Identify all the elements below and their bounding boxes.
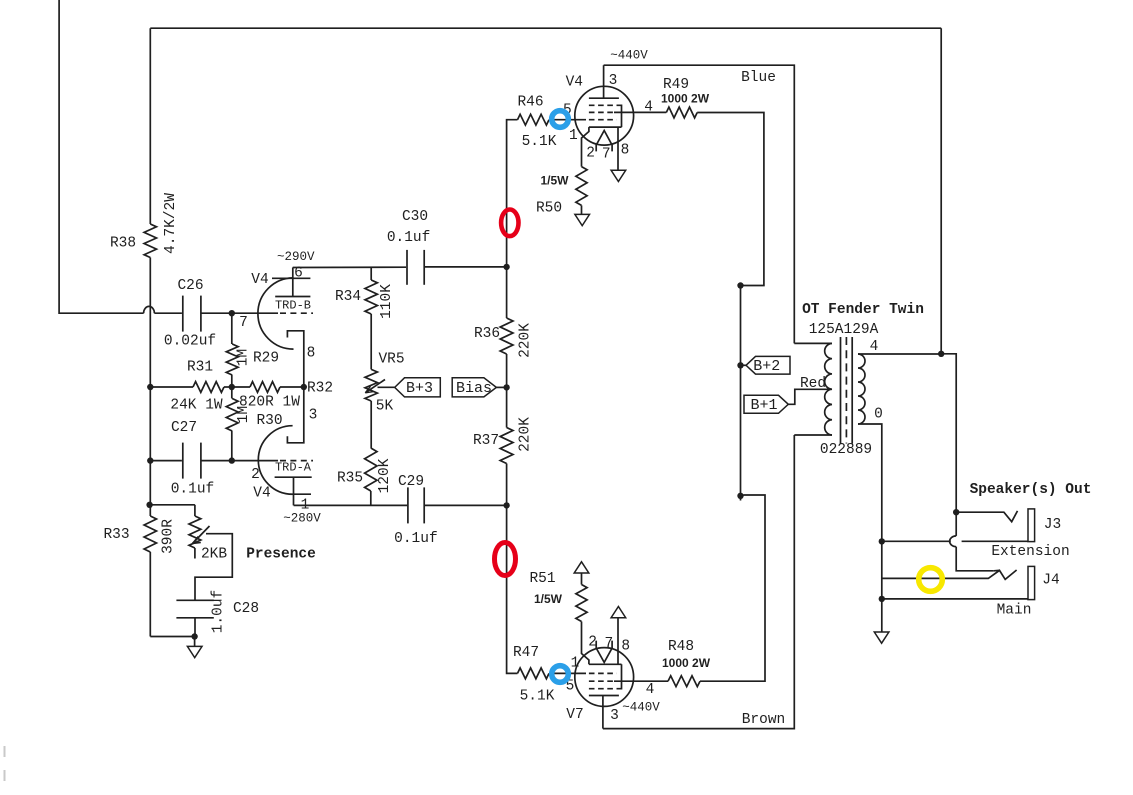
resistor R36 xyxy=(506,267,508,318)
svg-text:820R 1W: 820R 1W xyxy=(239,394,300,410)
resistor R47 xyxy=(518,668,550,679)
resistor R29 xyxy=(226,344,238,375)
net tag B+2 xyxy=(746,356,790,374)
svg-text:Presence: Presence xyxy=(246,546,316,562)
node C29 junction xyxy=(503,502,509,508)
node J3 tip junction xyxy=(953,509,959,515)
resistor R34 xyxy=(370,267,372,280)
svg-text:R36: R36 xyxy=(474,326,500,342)
svg-text:C27: C27 xyxy=(171,420,197,436)
jack J3 body xyxy=(1028,509,1035,542)
wire R48 to B+2 rail xyxy=(700,495,765,681)
wire R29-R30 ladder vertical xyxy=(231,313,233,344)
jack J4 tip contact with switch xyxy=(882,570,1017,579)
svg-text:8: 8 xyxy=(307,345,316,361)
svg-text:4: 4 xyxy=(646,682,655,698)
svg-text:8: 8 xyxy=(621,639,630,655)
capacitor C28 xyxy=(176,599,213,601)
wire C27 row xyxy=(150,460,182,462)
svg-text:R31: R31 xyxy=(187,359,213,375)
svg-text:R32: R32 xyxy=(307,380,333,396)
plate of TRD-A (double bar) xyxy=(275,476,312,478)
heater of V4 (pins 2,7) xyxy=(596,131,612,152)
pin 8 lead of V7 to ground xyxy=(617,618,619,665)
annotation yellow ring xyxy=(919,568,943,592)
svg-text:1000 2W: 1000 2W xyxy=(662,656,711,670)
svg-text:2KB: 2KB xyxy=(201,546,227,562)
svg-text:0.1uf: 0.1uf xyxy=(171,481,215,497)
node J3 sleeve junction xyxy=(879,538,885,544)
transformer OT primary winding xyxy=(794,342,832,344)
node C28/ground junction xyxy=(191,633,197,639)
scan artifact dashed edge xyxy=(4,746,6,792)
svg-text:110K: 110K xyxy=(379,284,395,319)
svg-text:4.7K/2W: 4.7K/2W xyxy=(163,193,179,254)
svg-text:125A129A: 125A129A xyxy=(809,322,879,338)
wire to presence pot top xyxy=(150,504,195,506)
resistor R51 (cathode sense) xyxy=(576,585,587,622)
svg-text:Extension: Extension xyxy=(991,544,1069,560)
svg-text:Brown: Brown xyxy=(742,712,786,728)
svg-text:4: 4 xyxy=(644,99,653,115)
svg-text:R51: R51 xyxy=(529,571,555,587)
svg-text:390R: 390R xyxy=(161,519,177,554)
svg-text:R37: R37 xyxy=(473,433,499,449)
annotation red ellipse lower xyxy=(495,543,516,576)
node R31/R29 junction xyxy=(229,384,235,390)
resistor R49 xyxy=(666,107,697,118)
wire J4 sleeve xyxy=(882,598,1028,600)
ground symbol pin8 V4 xyxy=(611,170,626,181)
svg-text:R50: R50 xyxy=(536,200,562,216)
heater of V7 (pins 2,7) xyxy=(596,641,612,663)
grid of TRD-B (dashed) xyxy=(280,312,313,314)
wire C29 to lower grid node xyxy=(424,504,506,506)
tube V4 power tube envelope xyxy=(575,86,634,145)
wire R38 branch upper (top rail down to R38) xyxy=(149,28,151,224)
svg-text:OT Fender Twin: OT Fender Twin xyxy=(802,302,924,318)
wire ~290V plate rail xyxy=(293,266,406,268)
svg-text:~290V: ~290V xyxy=(277,250,315,264)
svg-text:8: 8 xyxy=(621,142,630,158)
svg-text:R46: R46 xyxy=(517,94,543,110)
cathode of V4 xyxy=(589,126,622,128)
wire top NFB rail xyxy=(150,27,941,29)
svg-text:1000 2W: 1000 2W xyxy=(661,92,710,106)
svg-text:V4: V4 xyxy=(253,485,270,501)
capacitor C26 xyxy=(182,296,184,332)
plate of V7 (pin 3) xyxy=(589,695,619,697)
wire B+2 tag stub xyxy=(741,364,747,366)
svg-text:C28: C28 xyxy=(233,601,259,617)
cathode of V7 xyxy=(589,663,622,665)
transformer OT secondary winding xyxy=(858,354,865,424)
control grid of V4 (dashed, pin 5) xyxy=(589,119,617,121)
screen grid of V4 (dashed, pin 4) xyxy=(589,111,614,113)
svg-text:~440V: ~440V xyxy=(622,700,660,714)
svg-text:120K: 120K xyxy=(377,458,393,493)
node R31 left xyxy=(147,384,153,390)
wire secondary to J3 tip xyxy=(941,354,956,512)
annotation blue ring upper xyxy=(552,111,569,128)
svg-text:J4: J4 xyxy=(1042,572,1059,588)
resistor R38 xyxy=(144,224,156,258)
svg-text:VR5: VR5 xyxy=(378,351,404,367)
node R32 right (tail junction) xyxy=(301,384,307,390)
svg-text:C30: C30 xyxy=(402,209,428,225)
svg-text:24K 1W: 24K 1W xyxy=(170,397,223,413)
wire speaker ground drop xyxy=(881,541,883,632)
node J4 sleeve junction xyxy=(879,596,885,602)
svg-text:022889: 022889 xyxy=(820,442,872,458)
wire C26 to grid node pin7 xyxy=(201,312,232,314)
wire presence wiper loop xyxy=(195,534,232,601)
svg-text:3: 3 xyxy=(309,407,318,423)
svg-text:C26: C26 xyxy=(177,278,203,294)
svg-text:7: 7 xyxy=(239,315,248,331)
wire R38 lower to presence network (vertical through hop, down to R33 node) xyxy=(149,258,151,505)
annotation red ellipse upper xyxy=(501,210,518,237)
resistor R46 xyxy=(518,114,550,125)
svg-text:0.1uf: 0.1uf xyxy=(387,230,431,246)
svg-text:0: 0 xyxy=(874,406,883,422)
node B+2/R48 junction xyxy=(737,493,743,499)
svg-text:5.1K: 5.1K xyxy=(520,688,555,704)
svg-text:R38: R38 xyxy=(110,235,136,251)
ground symbol presence xyxy=(187,646,202,657)
ground symbol R50 xyxy=(575,214,590,225)
pin 8 lead of V4 to ground xyxy=(617,127,619,170)
node NFB takeoff junction xyxy=(938,351,944,357)
svg-text:B+3: B+3 xyxy=(406,380,433,397)
svg-text:Main: Main xyxy=(997,602,1032,618)
net tag B+3 xyxy=(395,378,441,397)
svg-text:B+1: B+1 xyxy=(750,397,777,414)
svg-text:R35: R35 xyxy=(337,470,363,486)
control grid of V7 (dashed, pin 5) xyxy=(589,672,617,674)
capacitor C27 xyxy=(182,443,184,479)
tube V4 TRD-A envelope (lower PI triode) xyxy=(258,426,292,495)
svg-text:1: 1 xyxy=(571,655,580,671)
svg-text:1: 1 xyxy=(569,128,578,144)
node B+ corner xyxy=(737,282,743,288)
svg-text:B+2: B+2 xyxy=(753,358,780,375)
transformer OT primary center tap Red xyxy=(788,389,832,404)
grid of TRD-A (dashed) xyxy=(280,460,313,462)
wire PI lower output vertical to R47 xyxy=(507,505,518,673)
node C30 junction xyxy=(503,264,509,270)
svg-text:1/5W: 1/5W xyxy=(540,174,569,188)
svg-text:V4: V4 xyxy=(566,75,583,91)
wire C30 to grid node xyxy=(424,266,506,268)
svg-text:7: 7 xyxy=(605,636,614,652)
svg-text:1/5W: 1/5W xyxy=(534,592,563,606)
svg-text:Speaker(s) Out: Speaker(s) Out xyxy=(970,482,1092,498)
pin 1 lead of V4 xyxy=(582,127,589,167)
cathode of TRD-A xyxy=(287,387,303,443)
wire input from previous stage (left edge vertical + horizontal into C26, with hop over R38 net) xyxy=(59,0,144,313)
svg-text:R29: R29 xyxy=(253,350,279,366)
tube V4 TRD-B envelope (upper PI triode) xyxy=(258,278,294,349)
svg-text:TRD-A: TRD-A xyxy=(275,460,312,474)
svg-text:R30: R30 xyxy=(256,413,282,429)
node R33 top xyxy=(146,502,152,508)
svg-text:0.02uf: 0.02uf xyxy=(164,333,216,349)
beam plates of V7 (dashed) with strap xyxy=(589,688,619,690)
svg-text:4: 4 xyxy=(870,339,879,355)
plate of TRD-B (double bar) xyxy=(272,277,310,279)
svg-text:1.0uf: 1.0uf xyxy=(210,590,226,634)
resistor R37 xyxy=(506,387,508,427)
svg-text:7: 7 xyxy=(602,147,611,163)
wire J3 tip switch link to J4 (hop over sleeve wire) xyxy=(955,512,957,536)
svg-text:C29: C29 xyxy=(398,474,424,490)
resistor R50 (cathode sense) xyxy=(576,167,587,206)
pin 1 lead of V7 xyxy=(582,622,589,665)
annotation blue ring lower xyxy=(552,666,569,683)
svg-text:R48: R48 xyxy=(668,639,694,655)
svg-text:Bias: Bias xyxy=(456,380,492,397)
wire plate to Blue lead xyxy=(604,65,795,343)
net tag Bias xyxy=(452,378,496,397)
wire J3 sleeve to secondary 0 (with hop) xyxy=(882,540,951,542)
resistor R33 xyxy=(149,505,151,516)
node B+2 junction xyxy=(737,362,743,368)
net tag B+1 xyxy=(744,395,788,413)
cathode of TRD-B xyxy=(287,331,303,387)
svg-text:220K: 220K xyxy=(517,417,533,452)
wire B+2 vertical rail xyxy=(740,286,742,501)
beam plates of V4 (dashed) with strap xyxy=(589,104,619,106)
svg-text:0.1uf: 0.1uf xyxy=(394,531,438,547)
ground symbol speaker xyxy=(874,632,889,643)
svg-text:Red: Red xyxy=(800,376,826,392)
wire NFB rail drop xyxy=(940,28,942,354)
node C26/R29 junction xyxy=(229,310,235,316)
wire R49 to B+2 rail xyxy=(697,113,764,286)
svg-text:1M: 1M xyxy=(235,349,251,366)
svg-text:3: 3 xyxy=(609,73,618,89)
wire R47 to grid pin5 V7 xyxy=(549,672,586,674)
svg-text:Blue: Blue xyxy=(741,70,776,86)
resistor R31 xyxy=(150,386,193,388)
potentiometer Presence 2KB element xyxy=(189,516,201,548)
capacitor C29 xyxy=(407,487,409,523)
capacitor C30 xyxy=(406,250,408,285)
wire plate V7 to Brown lead xyxy=(603,435,794,729)
jack J4 switch contact touch xyxy=(994,569,1000,571)
plate of V4 (pin 3) xyxy=(589,97,619,99)
svg-text:R34: R34 xyxy=(335,289,361,305)
resistor R35 xyxy=(365,448,377,491)
svg-text:~280V: ~280V xyxy=(283,512,321,526)
wire ~280V plate row xyxy=(294,504,408,506)
ground symbol pin8 V7 xyxy=(611,607,626,618)
svg-text:J3: J3 xyxy=(1044,517,1061,533)
node bias junction xyxy=(503,384,509,390)
svg-text:R47: R47 xyxy=(513,645,539,661)
wire PI upper output vertical to R46 xyxy=(507,120,518,267)
svg-text:R33: R33 xyxy=(103,527,129,543)
svg-text:R49: R49 xyxy=(663,77,689,93)
node C27 left xyxy=(147,457,153,463)
svg-text:V7: V7 xyxy=(566,707,583,723)
wiper of presence pot with arrow xyxy=(193,526,210,544)
svg-text:5.1K: 5.1K xyxy=(522,134,557,150)
svg-text:5K: 5K xyxy=(376,398,394,414)
svg-text:V4: V4 xyxy=(251,272,268,288)
svg-text:220K: 220K xyxy=(517,323,533,358)
svg-text:~440V: ~440V xyxy=(610,48,648,62)
svg-text:3: 3 xyxy=(610,708,619,724)
ground symbol R51 xyxy=(574,562,589,573)
node C27 right / R30 xyxy=(229,457,235,463)
jack J4 body xyxy=(1028,566,1035,599)
resistor R30 xyxy=(226,399,238,432)
wire R46 to grid pin5 xyxy=(549,119,586,121)
transformer OT core xyxy=(840,337,842,444)
tube V7 power tube envelope xyxy=(575,648,634,707)
potentiometer VR5 xyxy=(365,369,377,401)
svg-text:2: 2 xyxy=(586,146,595,162)
svg-text:2: 2 xyxy=(251,467,260,483)
resistor R48 xyxy=(668,676,700,687)
svg-text:2: 2 xyxy=(588,635,597,651)
wire C28 bottom to ground bus xyxy=(194,618,196,637)
screen grid of V7 (dashed, pin 4) xyxy=(589,680,614,682)
jack J3 tip contact xyxy=(956,511,1017,522)
resistor R32 xyxy=(232,386,250,388)
wiper of VR5 with arrow xyxy=(365,380,385,393)
svg-text:TRD-B: TRD-B xyxy=(275,298,311,312)
